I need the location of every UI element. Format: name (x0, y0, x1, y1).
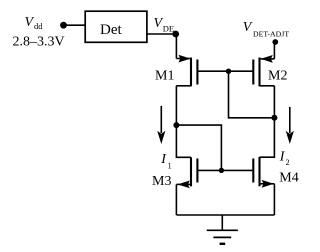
svg-text:2: 2 (286, 158, 290, 167)
svg-text:I: I (160, 152, 167, 167)
svg-text:2.8–3.3V: 2.8–3.3V (13, 35, 65, 50)
svg-text:V: V (243, 20, 253, 35)
ground (207, 215, 238, 244)
node M1 drain junction dot (173, 122, 179, 128)
wire M1 drain down to M3 drain (176, 86, 191, 158)
wire VDE node down to M1 source (175, 34, 177, 59)
current I2 arrow (286, 107, 294, 144)
label M1 (155, 68, 174, 83)
detector block Det (85, 11, 147, 42)
label 2.8-3.3V supply range (13, 35, 65, 50)
wire Det output to VDE node (147, 33, 176, 35)
svg-text:dd: dd (34, 21, 43, 31)
label I2 (279, 149, 290, 167)
node PMOS gate junction dot (226, 69, 231, 74)
svg-text:M4: M4 (279, 170, 298, 185)
label M2 (268, 68, 287, 83)
node M2 drain junction dot (271, 115, 277, 121)
wire PMOS gates to M2 drain node (229, 71, 275, 118)
svg-text:V: V (25, 15, 35, 30)
svg-text:Det: Det (100, 22, 122, 38)
wire M4 source down to ground rail (273, 184, 275, 215)
wire ground rail (176, 214, 274, 216)
label M4 (279, 170, 298, 185)
wire VDET-ADJT node down to M2 source (273, 42, 275, 59)
transistor M2 (PMOS) (253, 55, 274, 86)
svg-text:M3: M3 (152, 174, 171, 189)
current I1 arrow (157, 106, 165, 144)
node Vdd junction dot (60, 22, 67, 29)
node VDE junction dot (172, 31, 179, 38)
node Vdd label (25, 15, 44, 31)
transistor M3 (NMOS) (176, 157, 197, 188)
label M3 (152, 174, 171, 189)
svg-text:1: 1 (168, 162, 172, 171)
node VDET-ADJT junction dot (272, 39, 278, 45)
transistor M4 (NMOS) (253, 157, 274, 188)
svg-text:M1: M1 (155, 68, 174, 83)
node VDE label (154, 16, 175, 33)
wire Vdd dot to Det box (64, 24, 86, 26)
label I1 (160, 152, 171, 171)
svg-text:DET-ADJT: DET-ADJT (253, 30, 289, 39)
wire M2 drain down to M4 drain (260, 86, 275, 157)
wire M3 gate to M4 gate (197, 169, 253, 171)
svg-text:DE: DE (163, 23, 174, 33)
svg-text:M2: M2 (268, 68, 287, 83)
transistor M1 (PMOS) (176, 55, 197, 87)
wire M1 drain node to NMOS gates (176, 125, 221, 170)
wire M3 source down to ground rail (175, 184, 177, 215)
node VDET-ADJT label (243, 20, 290, 39)
node NMOS gate junction dot (219, 168, 224, 173)
wire M1 gate to M2 gate (197, 70, 253, 72)
